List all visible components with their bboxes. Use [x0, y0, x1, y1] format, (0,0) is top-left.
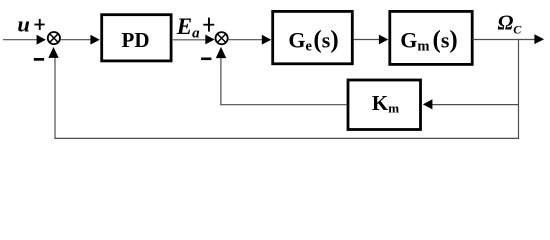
block Ge — [273, 11, 353, 63]
label − (Km feedback into S2) — [201, 58, 211, 61]
wire: outer loop vertical up into S1 — [54, 57, 56, 139]
wire: PD to S2 — [173, 39, 206, 41]
svg-text:ΩC: ΩC — [498, 11, 523, 37]
label + (Ea input to S2) — [203, 24, 214, 26]
summing junction S1 — [48, 32, 60, 44]
wire: outer loop bottom — [55, 137, 520, 139]
wire: Km output to left — [220, 104, 346, 106]
wire: vertical up into S2 — [220, 57, 222, 105]
label + (u input) — [34, 24, 44, 26]
arrowhead into Gm — [379, 35, 388, 45]
arrowhead up into S2 — [216, 47, 226, 58]
wire: Ge to Gm — [354, 39, 380, 41]
summing junction S2 — [216, 32, 228, 44]
svg-text:PD: PD — [122, 28, 150, 52]
wire: takeoff vertical down on right — [518, 40, 520, 139]
arrowhead into Ge — [262, 35, 271, 45]
wire: S1 to PD — [61, 39, 92, 41]
arrowhead output — [534, 34, 544, 44]
svg-text:Ge(s): Ge(s) — [288, 26, 338, 54]
svg-text:Ea: Ea — [176, 14, 200, 41]
label − (outer feedback into S1) — [34, 58, 44, 61]
block Gm — [390, 11, 472, 64]
wire: Gm to output — [473, 39, 536, 41]
arrowhead into PD — [90, 35, 99, 45]
arrowhead into S2 — [205, 35, 214, 45]
wire: into Km from right — [432, 104, 519, 106]
arrowhead up into S1 — [48, 47, 58, 58]
arrowhead into Km — [423, 99, 433, 109]
block Km — [348, 80, 421, 130]
arrowhead into S1 — [37, 35, 46, 45]
block PD — [102, 15, 171, 61]
wire: S2 to Ge — [229, 39, 263, 41]
svg-text:u: u — [17, 12, 30, 37]
wire: input u into summing junction S1 — [3, 39, 38, 41]
